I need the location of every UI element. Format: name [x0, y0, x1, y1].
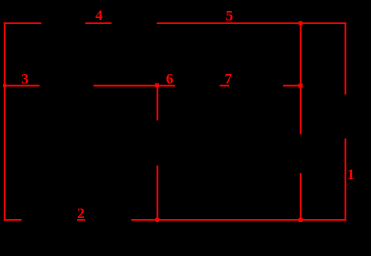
junction node net2 bottom at x300 [299, 218, 303, 222]
wire net2 vertical lower segment x300 [300, 173, 302, 220]
wire net5 vertical upper segment x300 [300, 23, 302, 134]
junction node net2 bottom mid vertical [155, 217, 160, 222]
wire net5 right vertical upper segment [344, 22, 346, 94]
wire net3 left vertical [4, 22, 6, 220]
svg-text:5: 5 [226, 9, 234, 25]
wire net2 stub under label 2 [77, 219, 85, 221]
wire net1 right vertical lower segment [344, 139, 346, 221]
wire net4 segment under label 4 [85, 22, 111, 24]
wire net2 mid vertical lower segment [156, 166, 158, 220]
wire net2 bottom-left segment [4, 219, 22, 221]
svg-text:6: 6 [166, 71, 174, 87]
junction node at left vertical and net3 [3, 84, 6, 87]
wire net3 horizontal segment [5, 85, 40, 87]
wire net2 bottom segment [131, 219, 346, 221]
wire net6 mid vertical upper segment [156, 86, 158, 121]
junction node net5 top at x300 [299, 21, 303, 25]
junction node net6 tee [155, 83, 159, 87]
wire net5 top segment [157, 22, 346, 24]
wire net6 horizontal segment [94, 85, 176, 87]
svg-text:3: 3 [21, 72, 29, 88]
wire net7 right horizontal segment [283, 85, 301, 87]
svg-text:4: 4 [95, 8, 103, 24]
junction node net7 tee at x300 [299, 84, 303, 88]
wire net7 stub under label 7 [220, 85, 229, 87]
svg-text:2: 2 [77, 206, 85, 222]
svg-text:1: 1 [347, 167, 355, 183]
wire net4 top-left segment [4, 22, 42, 24]
svg-text:7: 7 [224, 72, 232, 88]
